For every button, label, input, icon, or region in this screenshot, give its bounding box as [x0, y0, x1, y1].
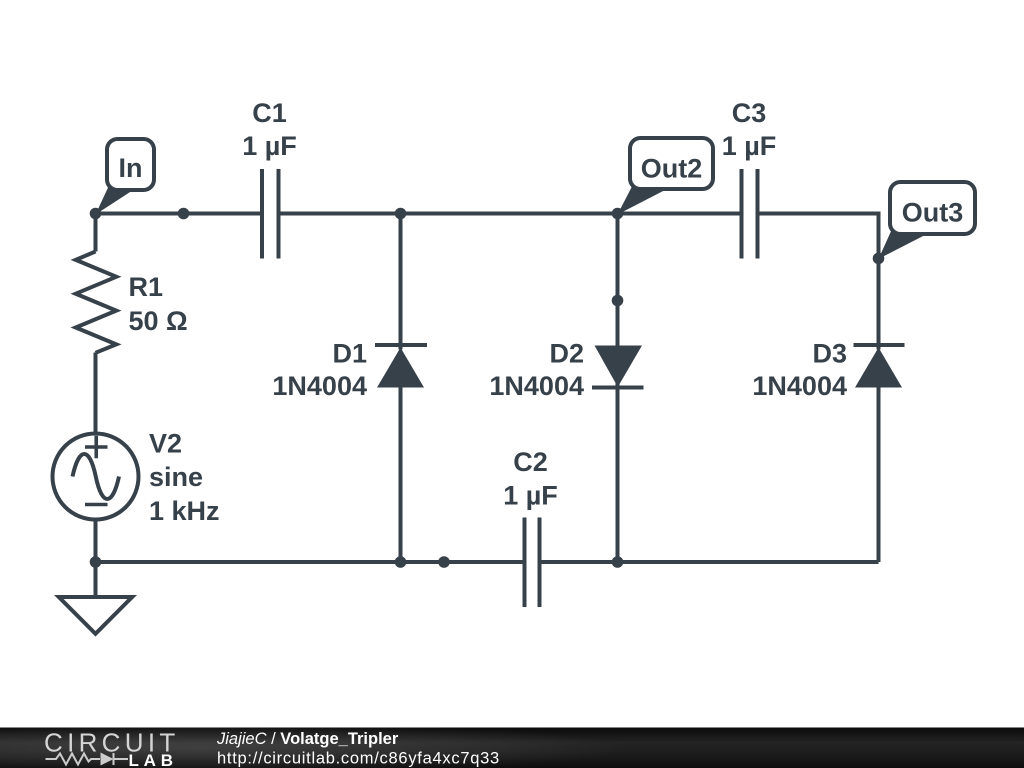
flag Out2 pointer wedge	[618, 185, 668, 215]
svg-text:1 µF: 1 µF	[503, 480, 558, 510]
svg-text:sine: sine	[149, 462, 203, 492]
wire D1 cathode to bottom rail	[399, 388, 403, 563]
capacitor C3 plates	[740, 169, 744, 259]
V2 minus sign	[85, 503, 108, 507]
svg-text:C1: C1	[252, 98, 287, 128]
svg-text:V2: V2	[149, 429, 182, 459]
wire V2 to ground node	[94, 521, 98, 597]
svg-text:Out3: Out3	[902, 198, 964, 228]
node junction dot: D2 bottom	[612, 556, 624, 568]
footer bar	[0, 728, 1024, 768]
svg-text:1N4004: 1N4004	[489, 371, 584, 401]
capacitor C2 plates	[523, 518, 527, 608]
flag In box	[107, 139, 154, 190]
svg-text:1N4004: 1N4004	[752, 371, 847, 401]
footer logo resistor-diode squiggle	[46, 753, 129, 765]
wire left rail: In node to R1	[94, 214, 98, 252]
wire D2 branch from top rail	[616, 214, 620, 346]
node junction dot: ground	[90, 556, 102, 568]
svg-text:In: In	[119, 153, 143, 183]
V2 plus sign	[85, 436, 108, 458]
node junction dot: D1 bottom	[395, 556, 407, 568]
wire D1 anode branch from top rail	[399, 214, 403, 350]
wire R1 to V2	[94, 353, 98, 433]
flag Out2 box	[630, 138, 713, 189]
ground symbol	[59, 597, 132, 634]
wire C1 to C3	[278, 212, 742, 216]
svg-text:D1: D1	[332, 339, 367, 369]
node junction dot: Out2	[612, 208, 624, 220]
svg-text:D2: D2	[549, 339, 584, 369]
wire bottom rail right: C2 to D3	[540, 560, 879, 564]
wire C3 to top-right corner down to D3	[758, 214, 879, 350]
flag Out3 pointer wedge	[879, 228, 929, 259]
node junction dot: bottom rail	[438, 556, 450, 568]
svg-text:1N4004: 1N4004	[272, 371, 367, 401]
diode D3 cathode bar	[854, 343, 905, 347]
svg-text:LAB: LAB	[129, 751, 178, 768]
svg-text:C2: C2	[513, 447, 548, 477]
V2 sine waveform	[73, 454, 120, 499]
node junction dot: In	[90, 208, 102, 220]
svg-text:1 µF: 1 µF	[722, 131, 777, 161]
node junction dot: top wire left	[178, 208, 190, 220]
svg-text:1 µF: 1 µF	[242, 131, 297, 161]
footer logo diode triangle	[101, 753, 114, 766]
capacitor C1 plates	[260, 169, 264, 259]
svg-text:R1: R1	[129, 272, 164, 302]
node junction dot: D1 top	[395, 208, 407, 220]
diode D2 triangle	[595, 346, 643, 388]
wire D2 cathode to bottom rail	[616, 383, 620, 562]
svg-text:1 kHz: 1 kHz	[149, 496, 220, 526]
diode D1 cathode bar	[375, 343, 427, 347]
voltage source V2 circle	[53, 434, 139, 520]
wire D3 cathode to bottom rail	[877, 388, 881, 563]
svg-text:Out2: Out2	[641, 154, 703, 184]
svg-text:D3: D3	[812, 339, 847, 369]
diode D1 triangle	[377, 348, 424, 388]
resistor R1 zigzag	[76, 252, 117, 353]
flag Out3 box	[890, 182, 975, 234]
wire bottom rail left: ground node to C2	[96, 560, 526, 564]
node junction dot: Out3	[873, 253, 885, 265]
svg-text:http://circuitlab.com/c86yfa4x: http://circuitlab.com/c86yfa4xc7q33	[217, 749, 500, 767]
diode D3 triangle	[855, 348, 902, 388]
flag In pointer wedge	[96, 186, 135, 215]
svg-text:JiajieC / Volatge_Tripler: JiajieC / Volatge_Tripler	[216, 730, 399, 748]
diode D2 cathode bar	[592, 386, 644, 390]
node junction dot: D2 wire	[612, 295, 624, 307]
wire top-left: node In to C1	[96, 212, 263, 216]
svg-text:50 Ω: 50 Ω	[129, 306, 188, 336]
svg-text:C3: C3	[732, 98, 767, 128]
